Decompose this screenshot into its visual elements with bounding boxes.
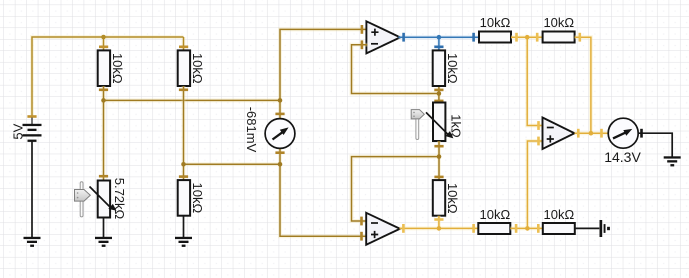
potentiometer P2 1k [426, 103, 453, 142]
voltmeter M1 [265, 119, 295, 149]
resistor R2 10k [178, 50, 190, 86]
svg-text:10kΩ: 10kΩ [544, 207, 575, 222]
wire M2 to ground [638, 129, 672, 157]
svg-text:1kΩ: 1kΩ [449, 114, 464, 138]
node B junction [181, 162, 282, 167]
wire U3 feedback net [575, 33, 591, 133]
wire node A net [99, 25, 368, 180]
ground sideways [600, 220, 610, 237]
svg-text:10kΩ: 10kΩ [190, 183, 205, 214]
svg-text:-681mV: -681mV [244, 107, 259, 153]
resistor R5 10k feedback bottom [433, 180, 445, 216]
potentiometer P2 slider [411, 110, 424, 140]
wire R3 to ground [183, 216, 185, 237]
node junction U3 output [589, 131, 594, 136]
svg-text:10kΩ: 10kΩ [445, 53, 460, 84]
ground right [664, 156, 681, 166]
wire battery negative to ground [31, 141, 33, 237]
svg-text:10kΩ: 10kΩ [445, 183, 460, 214]
op-amp U2 [366, 213, 400, 245]
battery V1 [23, 118, 42, 142]
voltmeter M2 [608, 118, 638, 148]
resistor R1 10k [98, 50, 110, 86]
svg-text:10kΩ: 10kΩ [480, 207, 511, 222]
resistor R9 10k bottom right [543, 223, 575, 234]
svg-text:10kΩ: 10kΩ [480, 15, 511, 30]
wire R9 to ground [575, 227, 600, 229]
wire V+ node net [510, 137, 543, 233]
node G2 junction [437, 154, 442, 159]
ground [24, 237, 41, 247]
op-amp U1 [366, 21, 400, 53]
node junction battery top rail [101, 35, 106, 40]
svg-text:5V: 5V [10, 123, 25, 139]
svg-text:5.72kΩ: 5.72kΩ [112, 178, 127, 220]
wire U3 output net [575, 129, 609, 138]
node V+ junction [525, 226, 530, 231]
resistor R7 10k top right feedback [543, 32, 575, 43]
node A junction [101, 98, 282, 103]
ground [95, 237, 112, 247]
wire P1 to ground [103, 218, 105, 238]
ground [175, 237, 192, 247]
resistor R6 10k top right [479, 32, 511, 43]
wire battery positive net [27, 37, 188, 118]
wire U1 output net (blue) [398, 33, 479, 51]
wire U1 feedback net G1 [352, 40, 444, 102]
wire node B net [179, 86, 367, 241]
resistor R8 10k bottom right [478, 223, 510, 234]
wire node G2 net [352, 141, 444, 225]
wire V- node net [511, 33, 543, 130]
node V- junction [525, 35, 530, 40]
wire U2 output net (yellow) [400, 216, 479, 233]
svg-text:14.3V: 14.3V [604, 149, 641, 165]
node junction U1 output [437, 35, 442, 40]
svg-text:10kΩ: 10kΩ [190, 53, 205, 84]
resistor R3 10k bottom left [178, 180, 190, 216]
op-amp U3 [543, 118, 575, 150]
resistor R4 10k feedback top [433, 50, 445, 86]
potentiometer P1 5.72k [90, 181, 117, 218]
svg-text:10kΩ: 10kΩ [110, 53, 125, 84]
node G1 junction [437, 91, 442, 96]
potentiometer P1 slider [75, 182, 91, 217]
node junction U2 output [437, 226, 442, 231]
svg-text:10kΩ: 10kΩ [543, 15, 574, 30]
